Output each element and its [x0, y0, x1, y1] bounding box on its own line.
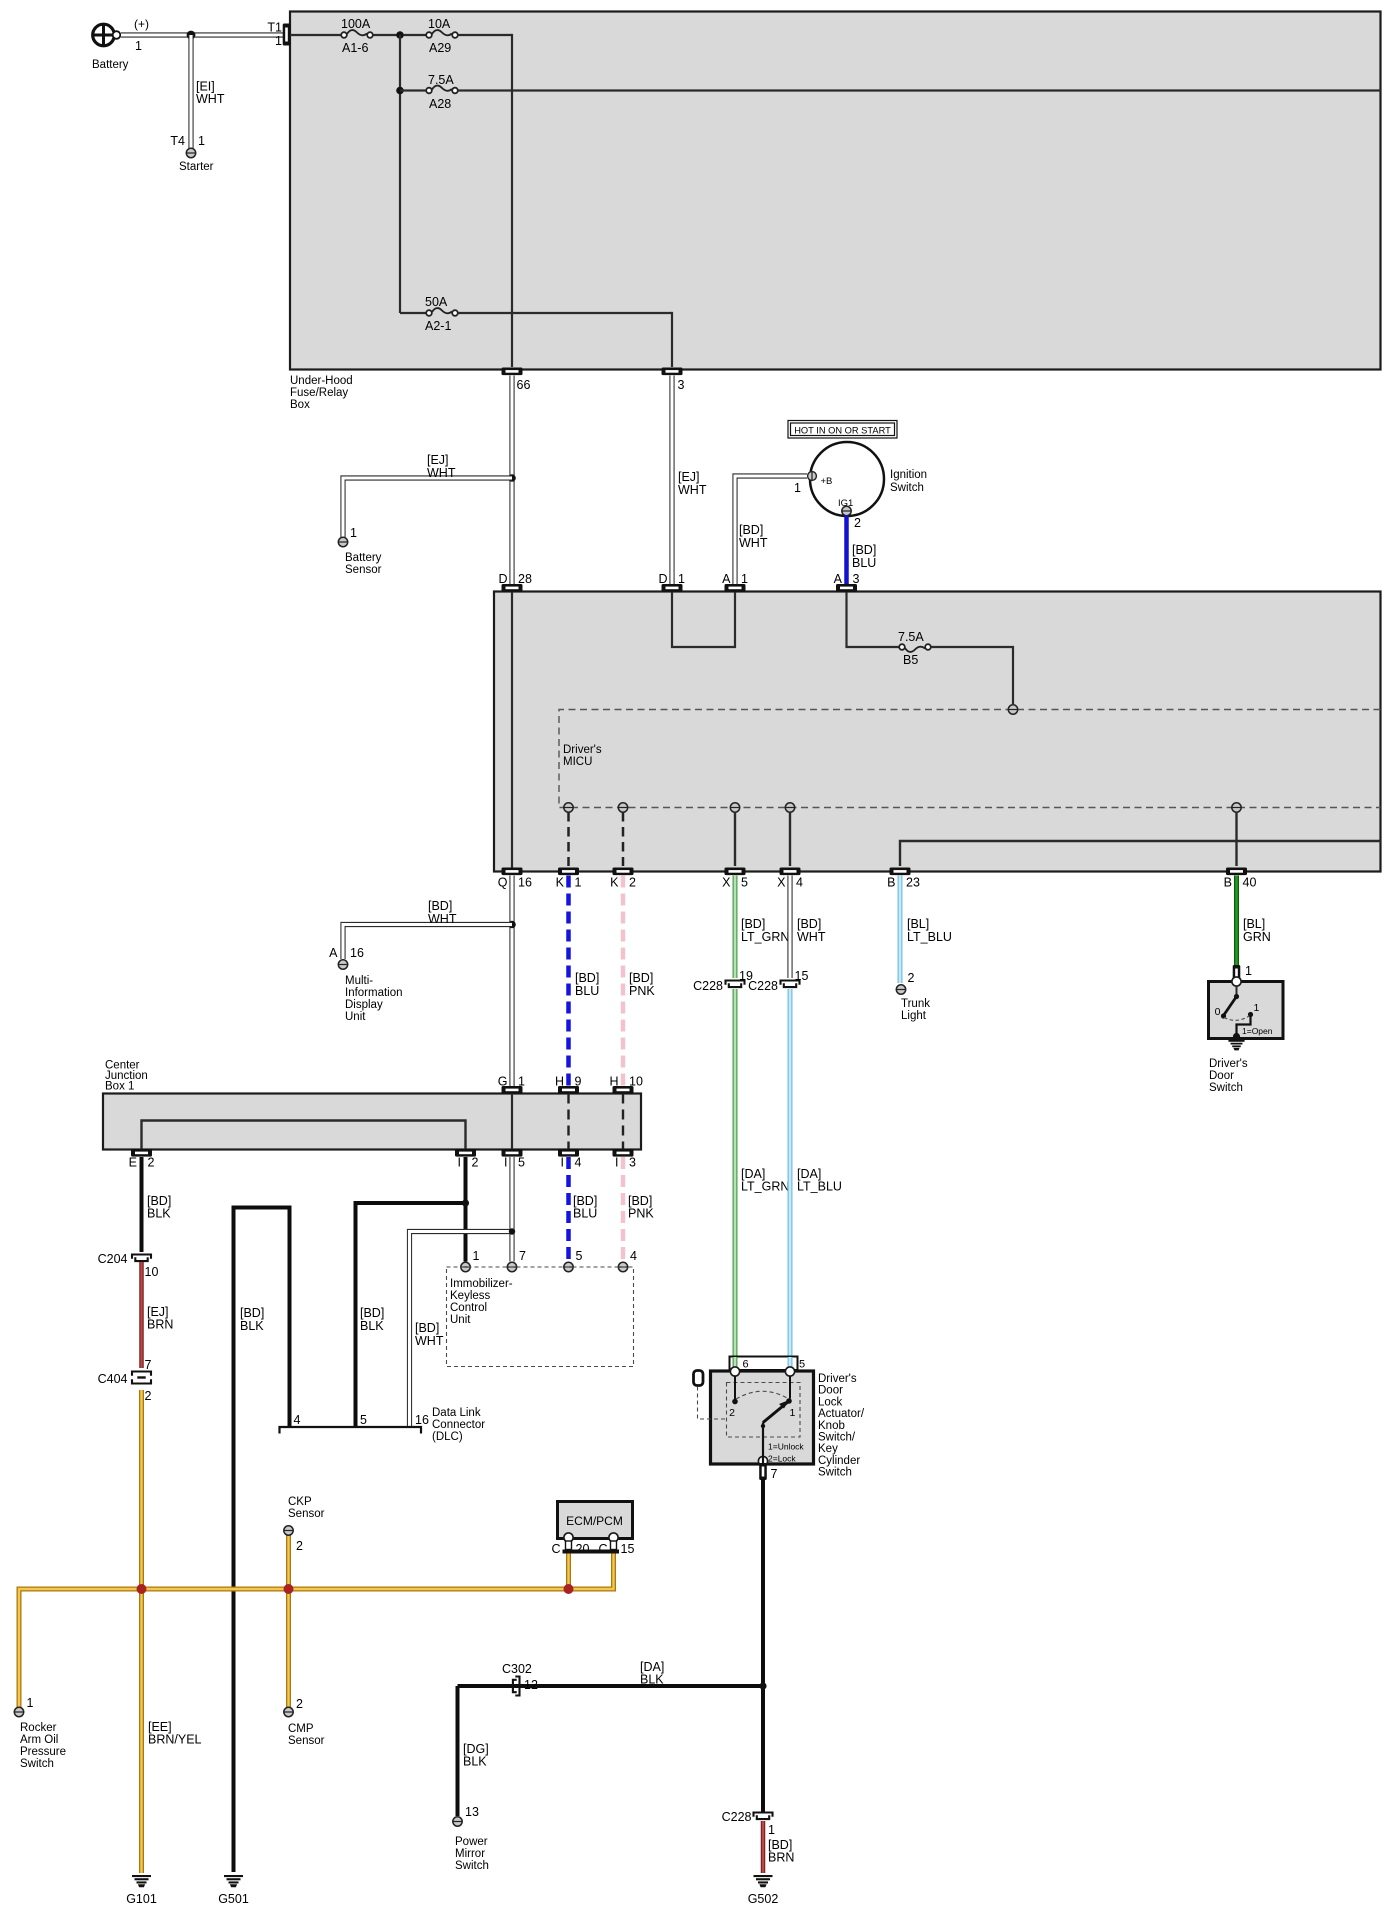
svg-text:2: 2 [854, 516, 861, 530]
svg-text:13: 13 [465, 1805, 479, 1819]
svg-text:D: D [658, 572, 667, 586]
svg-text:Actuator/: Actuator/ [818, 1408, 865, 1420]
svg-text:1=Unlock: 1=Unlock [768, 1442, 804, 1452]
ground G101 [126, 1875, 157, 1906]
junction node B [396, 87, 404, 95]
junction box internal dashed H10-I3 [622, 1094, 624, 1150]
svg-text:[BD]: [BD] [629, 971, 653, 985]
dashed wire to K2 [622, 812, 625, 866]
svg-text:3: 3 [853, 572, 860, 586]
svg-text:2: 2 [472, 1156, 479, 1170]
svg-text:1: 1 [1245, 964, 1252, 978]
connector E 2 [129, 1149, 155, 1170]
svg-text:2: 2 [729, 1407, 735, 1419]
wire [BD] PNK K2 to H10 [621, 876, 626, 1087]
svg-text:K: K [556, 876, 565, 890]
svg-text:23: 23 [906, 876, 920, 890]
svg-text:PNK: PNK [629, 984, 655, 998]
fuse 100A A1-6 [341, 17, 373, 55]
svg-text:7: 7 [145, 1358, 152, 1372]
svg-text:Rocker: Rocker [20, 1722, 57, 1734]
svg-text:BLK: BLK [463, 1755, 487, 1769]
svg-text:5: 5 [741, 876, 748, 890]
svg-text:3: 3 [678, 378, 685, 392]
svg-text:2: 2 [145, 1389, 152, 1403]
svg-text:Switch/: Switch/ [818, 1432, 856, 1444]
starter terminal T4-1 [170, 134, 213, 173]
svg-text:1=Open: 1=Open [1242, 1026, 1273, 1036]
svg-text:Door: Door [1209, 1070, 1234, 1082]
ignition switch circle [810, 442, 927, 516]
junction node I5 [509, 1228, 515, 1234]
ECM connector C 20 [551, 1533, 589, 1556]
svg-text:C404: C404 [98, 1372, 128, 1386]
connector T1 pin 1 [267, 21, 290, 49]
svg-text:A: A [834, 572, 843, 586]
connector D 28 [498, 572, 531, 592]
connector G 1 [498, 1075, 525, 1094]
svg-text:PNK: PNK [628, 1207, 654, 1221]
wire [BD] BLU IG1 to A3 [844, 516, 849, 585]
door switch dashed arc [1224, 1016, 1250, 1021]
svg-text:BRN/YEL: BRN/YEL [148, 1733, 202, 1747]
svg-text:9: 9 [575, 1075, 582, 1089]
svg-text:Arm Oil: Arm Oil [20, 1734, 58, 1746]
connector X 4 [777, 868, 803, 890]
svg-text:BLK: BLK [240, 1319, 264, 1333]
battery [92, 17, 149, 71]
wire 10A to connector 66 [458, 34, 512, 367]
ECM/PCM box [558, 1502, 633, 1539]
wire battery to T1 [121, 32, 283, 37]
svg-text:16: 16 [350, 946, 364, 960]
svg-text:Switch: Switch [20, 1758, 54, 1770]
svg-text:5: 5 [576, 1249, 583, 1263]
wire fuse 100A to junction [373, 34, 397, 36]
svg-text:T1: T1 [267, 21, 282, 35]
svg-text:Data Link: Data Link [432, 1407, 481, 1419]
svg-text:4: 4 [796, 876, 803, 890]
svg-text:G501: G501 [218, 1892, 249, 1906]
svg-text:2: 2 [908, 971, 915, 985]
door switch terminal [1232, 977, 1241, 986]
svg-text:1: 1 [790, 1407, 796, 1419]
svg-text:Switch: Switch [818, 1467, 852, 1479]
svg-text:3: 3 [629, 1156, 636, 1170]
svg-text:1: 1 [275, 34, 282, 48]
svg-text:MICU: MICU [563, 756, 592, 768]
battery sensor terminal 1 [338, 526, 381, 576]
fuse 7.5A B5 [898, 630, 931, 667]
svg-text:HOT IN ON OR START: HOT IN ON OR START [794, 426, 891, 436]
svg-text:1: 1 [473, 1249, 480, 1263]
MICU terminal B40 [1232, 803, 1241, 812]
svg-text:10A: 10A [428, 17, 451, 31]
svg-text:BLU: BLU [852, 556, 876, 570]
label [DA] BLK [640, 1660, 664, 1687]
door lock actuator box [711, 1371, 814, 1464]
svg-text:BRN: BRN [768, 1851, 794, 1865]
label [BD] PNK [629, 971, 655, 998]
svg-text:X: X [777, 876, 786, 890]
svg-text:2: 2 [629, 876, 636, 890]
connector 3 [662, 368, 685, 393]
svg-text:C: C [551, 1542, 560, 1556]
junction box internal dashed H9-I4 [567, 1094, 569, 1150]
immobilizer-keyless control unit dashed box [447, 1267, 634, 1367]
svg-text:LT_GRN: LT_GRN [741, 930, 789, 944]
door lock dashed arc [736, 1391, 787, 1399]
svg-text:BLK: BLK [360, 1319, 384, 1333]
wire orange to C20 [566, 1542, 571, 1589]
wire 66 to D28 [509, 376, 514, 585]
fuse 50A A2-1 [400, 295, 458, 333]
svg-text:LT_GRN: LT_GRN [741, 1180, 789, 1194]
svg-text:Battery: Battery [92, 59, 129, 71]
door switch wire to ground [1233, 1015, 1251, 1041]
wire to battery sensor [343, 478, 512, 537]
wire [BD] BLK branch to DLC 5 [356, 1203, 466, 1426]
junction node I2 [462, 1199, 469, 1206]
svg-text:[EJ]: [EJ] [427, 453, 449, 467]
svg-text:Door: Door [818, 1385, 843, 1397]
svg-text:1: 1 [768, 1823, 775, 1837]
svg-text:16: 16 [518, 876, 532, 890]
svg-text:4: 4 [294, 1413, 301, 1427]
label [BD] WHT X4 [797, 917, 826, 944]
junction node battery/starter [187, 31, 196, 40]
svg-text:K: K [610, 876, 619, 890]
svg-text:T4: T4 [170, 134, 185, 148]
ECM connector bar [563, 1550, 620, 1554]
svg-text:1: 1 [27, 1696, 34, 1710]
connector C228 pin 15 [748, 969, 808, 993]
junction node battery sensor [508, 474, 516, 482]
wire B23 from right [900, 841, 1381, 866]
svg-text:Switch: Switch [890, 482, 924, 494]
wire junction A down [399, 35, 401, 313]
label [BD] BLU I4 [573, 1194, 597, 1221]
wire to X5 [734, 812, 736, 866]
svg-text:Sensor: Sensor [345, 564, 382, 576]
svg-text:Unit: Unit [345, 1011, 366, 1023]
door lock switch lever [761, 1400, 789, 1456]
connector K 1 [556, 868, 582, 890]
svg-text:2: 2 [148, 1156, 155, 1170]
label [BD] BLU [575, 971, 599, 998]
door lock actuator label [818, 1373, 865, 1479]
svg-text:[BD]: [BD] [739, 523, 763, 537]
wire [DA] BLK horizontal [458, 1684, 764, 1688]
wire [BD] WHT X4 to C228 [787, 876, 792, 979]
svg-text:[BD]: [BD] [360, 1306, 384, 1320]
svg-text:1: 1 [198, 134, 205, 148]
svg-text:Driver's: Driver's [563, 744, 602, 756]
connector A 1 [722, 572, 748, 592]
svg-text:Immobilizer-: Immobilizer- [450, 1278, 513, 1290]
wire to X4 [789, 812, 791, 866]
svg-text:4: 4 [575, 1156, 582, 1170]
svg-text:D: D [498, 572, 507, 586]
wire [BD] BLU K1 to H9 [566, 876, 571, 1087]
svg-text:A1-6: A1-6 [342, 41, 368, 55]
label [BD] BLK E2 [147, 1194, 171, 1221]
svg-text:Driver's: Driver's [818, 1373, 857, 1385]
wire [BD] LT_GRN X5 to C228 [733, 876, 738, 979]
svg-text:Under-Hood: Under-Hood [290, 375, 353, 387]
multi-information display unit label [345, 975, 403, 1023]
MICU terminal K1 [564, 803, 573, 812]
svg-text:2: 2 [296, 1539, 303, 1553]
junction node A [396, 31, 404, 39]
svg-text:15: 15 [795, 969, 809, 983]
wire [EE] BRN/YEL main run [19, 1542, 614, 1707]
svg-text:16: 16 [415, 1413, 429, 1427]
label [BD] BLK DLC5 [360, 1306, 384, 1333]
ground G502 [748, 1875, 779, 1906]
svg-text:1: 1 [1254, 1002, 1260, 1014]
key dashed link [698, 1387, 727, 1420]
label [BD] WHT DLC16 [415, 1321, 444, 1348]
svg-text:C: C [598, 1542, 607, 1556]
svg-text:C228: C228 [693, 979, 723, 993]
svg-text:Mirror: Mirror [455, 1848, 485, 1860]
label [BD] LT_GRN [741, 917, 789, 944]
wire 7.5A to right edge [458, 89, 1381, 91]
label [BD] BLU ignition [852, 543, 876, 570]
connector I 5 [502, 1149, 526, 1170]
connector I 2 [455, 1149, 479, 1170]
svg-text:7.5A: 7.5A [428, 73, 454, 87]
door lock dashed outline [727, 1383, 801, 1438]
svg-text:5: 5 [360, 1413, 367, 1427]
fuse 10A A29 [403, 17, 458, 55]
ignition +B terminal pin 1 [794, 472, 832, 495]
svg-text:I: I [615, 1156, 618, 1170]
svg-text:100A: 100A [341, 17, 371, 31]
driver's MICU box [494, 592, 1381, 872]
svg-text:15: 15 [621, 1542, 635, 1556]
svg-text:A: A [722, 572, 731, 586]
wire stubs through door lock connector [735, 1357, 790, 1367]
svg-text:IG1: IG1 [838, 498, 853, 509]
svg-text:Knob: Knob [818, 1420, 845, 1432]
data link connector DLC [280, 1407, 486, 1443]
svg-text:7: 7 [519, 1249, 526, 1263]
svg-text:[BL]: [BL] [907, 917, 929, 931]
wire A1 to +B [735, 476, 807, 584]
svg-text:1: 1 [741, 572, 748, 586]
svg-text:7: 7 [771, 1467, 778, 1481]
svg-text:Battery: Battery [345, 552, 382, 564]
svg-text:I: I [561, 1156, 564, 1170]
junction node orange G101 [137, 1584, 147, 1594]
svg-text:I: I [458, 1156, 461, 1170]
svg-text:X: X [722, 876, 731, 890]
svg-text:1: 1 [575, 876, 582, 890]
svg-text:[BD]: [BD] [240, 1306, 264, 1320]
ignition IG1 terminal pin 2 [838, 498, 861, 530]
center junction box 1 [103, 1060, 641, 1150]
wire A3 to fuse B5 [847, 592, 900, 647]
label [EJ] WHT battery sensor [427, 453, 456, 480]
wire [BL] LT_BLU B23 to trunk light [898, 876, 903, 984]
connector Q 16 [498, 868, 532, 890]
svg-text:WHT: WHT [415, 1334, 444, 1348]
svg-text:C204: C204 [98, 1252, 128, 1266]
driver's door switch box [1209, 982, 1284, 1039]
label [BL] LT_BLU [907, 917, 952, 944]
label [BD] BRN [768, 1838, 794, 1865]
svg-text:G101: G101 [126, 1892, 157, 1906]
wire B5 to MICU terminal [931, 647, 1013, 704]
door lock exit terminal [758, 1442, 804, 1466]
connector B 40 [1224, 868, 1257, 890]
svg-text:12: 12 [524, 1678, 538, 1692]
door switch connector 1 [1233, 964, 1252, 982]
connector C302 pin 12 [502, 1662, 538, 1696]
MICU terminal X5 [730, 803, 739, 812]
junction node orange CKP [284, 1584, 294, 1594]
svg-text:LT_BLU: LT_BLU [907, 930, 952, 944]
svg-text:1: 1 [135, 39, 142, 53]
connector 66 [502, 368, 531, 393]
svg-text:66: 66 [517, 378, 531, 392]
connector C228 pin 19 [693, 969, 753, 993]
svg-text:Keyless: Keyless [450, 1290, 491, 1302]
connector B 23 [887, 868, 920, 890]
svg-text:1: 1 [794, 481, 801, 495]
svg-text:H: H [609, 1075, 618, 1089]
wire I5 white down [509, 1157, 514, 1262]
wire 3 to D1 [669, 376, 674, 585]
door lock pin 1 contact [786, 1376, 795, 1419]
MICU terminal K2 [618, 803, 627, 812]
door lock terminal 6 [730, 1367, 739, 1376]
svg-text:Connector: Connector [432, 1419, 485, 1431]
label [EJ] BRN [147, 1305, 173, 1332]
junction box internal wire G1-I5 [511, 1094, 513, 1150]
wire to starter [188, 35, 193, 148]
connector X 5 [722, 868, 748, 890]
svg-text:1: 1 [350, 526, 357, 540]
driver's MICU inner dashed outline [559, 710, 1381, 808]
under-hood fuse/relay box [290, 12, 1381, 412]
wire [BD] BLK DLC 4 to G501 [234, 1208, 290, 1873]
door switch pole [1234, 986, 1239, 999]
wire [BD] BRN to G502 [761, 1821, 766, 1873]
connector H 9 [555, 1075, 582, 1094]
wire 50A to connector 3 [458, 312, 672, 367]
svg-text:WHT: WHT [428, 912, 457, 926]
svg-text:28: 28 [518, 572, 532, 586]
svg-text:(DLC): (DLC) [432, 1431, 463, 1443]
svg-text:[EJ]: [EJ] [678, 470, 700, 484]
svg-text:4: 4 [630, 1249, 637, 1263]
fuse 7.5A A28 [400, 73, 458, 111]
ground G501 [218, 1875, 249, 1906]
svg-text:Cylinder: Cylinder [818, 1455, 860, 1467]
svg-text:BLU: BLU [573, 1207, 597, 1221]
svg-text:[BD]: [BD] [741, 917, 765, 931]
door lock connector block pins 6 5 [730, 1357, 806, 1371]
svg-text:Sensor: Sensor [288, 1735, 325, 1747]
svg-text:6: 6 [743, 1359, 749, 1371]
svg-text:H: H [555, 1075, 564, 1089]
door lock terminal 5 [785, 1367, 794, 1376]
wire D1 to A1 internal [672, 592, 735, 647]
svg-text:E: E [129, 1156, 137, 1170]
CMP sensor [284, 1697, 325, 1747]
svg-text:Ignition: Ignition [890, 469, 927, 481]
svg-text:Box: Box [290, 399, 310, 411]
svg-text:[BD]: [BD] [575, 971, 599, 985]
wire [BD] BLK I2 down [464, 1157, 468, 1262]
svg-text:BLU: BLU [575, 984, 599, 998]
svg-text:A: A [329, 946, 338, 960]
junction node orange C20 [564, 1584, 574, 1594]
svg-text:Pressure: Pressure [20, 1746, 66, 1758]
wire T1 to fuses [290, 34, 341, 36]
svg-text:Light: Light [901, 1010, 927, 1022]
svg-text:Display: Display [345, 999, 383, 1011]
wire [DA] LT_GRN C228 to door lock [733, 989, 738, 1367]
svg-text:CMP: CMP [288, 1723, 314, 1735]
svg-text:Switch: Switch [455, 1860, 489, 1872]
svg-text:ECM/PCM: ECM/PCM [566, 1514, 623, 1528]
svg-text:BLK: BLK [147, 1207, 171, 1221]
svg-text:1: 1 [518, 1075, 525, 1089]
svg-text:A29: A29 [429, 41, 451, 55]
ECM connector C 15 [598, 1533, 634, 1556]
svg-text:B: B [1224, 876, 1232, 890]
HOT IN ON OR START banner [788, 421, 897, 439]
svg-text:5: 5 [799, 1359, 805, 1371]
junction box internal wire E2-I2 [142, 1121, 466, 1150]
immobilizer terminal 1 [461, 1249, 480, 1272]
svg-text:Multi-: Multi- [345, 975, 373, 987]
svg-text:20: 20 [576, 1542, 590, 1556]
driver's door switch label [1209, 1058, 1248, 1094]
svg-text:7.5A: 7.5A [898, 630, 924, 644]
svg-text:(+): (+) [134, 17, 149, 31]
dashed wire to K1 [567, 812, 570, 866]
svg-text:Switch: Switch [1209, 1082, 1243, 1094]
svg-text:Information: Information [345, 987, 403, 999]
svg-text:BRN: BRN [147, 1318, 173, 1332]
wire [DG] BLK to power mirror switch [456, 1686, 460, 1816]
label [BD] WHT MID [428, 899, 457, 926]
svg-text:1: 1 [678, 572, 685, 586]
MICU terminal X4 [785, 803, 794, 812]
svg-text:A28: A28 [429, 97, 451, 111]
svg-text:A2-1: A2-1 [425, 319, 451, 333]
wire orange CKP to CMP [286, 1535, 291, 1707]
svg-text:WHT: WHT [739, 536, 768, 550]
wire [DA] BLK door lock down [761, 1479, 765, 1813]
immobilizer terminal 7 [507, 1249, 526, 1272]
rocker arm oil pressure switch terminal 1 [14, 1696, 66, 1770]
MICU terminal node [1008, 705, 1017, 714]
label [DA] LT_BLU [797, 1167, 842, 1194]
junction node DA BLK [759, 1682, 766, 1689]
svg-text:Box 1: Box 1 [105, 1081, 134, 1093]
label [DA] LT_GRN [741, 1167, 789, 1194]
svg-text:40: 40 [1243, 876, 1257, 890]
svg-text:G502: G502 [748, 1892, 779, 1906]
svg-text:Q: Q [498, 876, 508, 890]
key symbol [694, 1371, 704, 1386]
